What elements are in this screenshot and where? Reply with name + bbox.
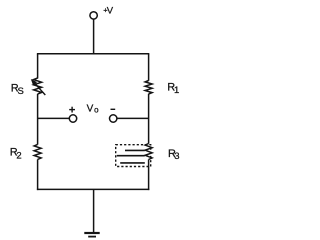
svg-text:2: 2 — [16, 151, 21, 162]
svg-text:V: V — [87, 103, 94, 114]
svg-text:3: 3 — [174, 151, 179, 162]
svg-text:o: o — [94, 106, 99, 115]
svg-text:1: 1 — [174, 85, 179, 96]
svg-text:S: S — [18, 86, 24, 97]
svg-text:V: V — [107, 5, 114, 16]
